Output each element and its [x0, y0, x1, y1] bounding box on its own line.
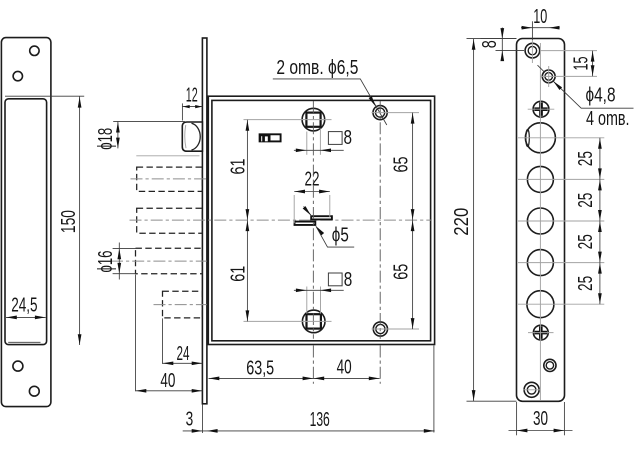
- dim 8 right view: [479, 28, 524, 62]
- dim phi18: [95, 121, 200, 155]
- face plate outline: [517, 39, 565, 402]
- label 2 holes phi6,5: [273, 57, 387, 125]
- strike plate screw hole top-right: [30, 46, 39, 55]
- svg-text:150: 150: [58, 210, 80, 233]
- spindle vertical centerline: [312, 101, 314, 339]
- crosshair hole 2: [518, 178, 604, 180]
- svg-text:24: 24: [177, 343, 190, 365]
- crosshair phillips upper: [528, 108, 555, 110]
- strike plate screw hole upper-left: [13, 71, 22, 80]
- svg-text:12: 12: [186, 84, 198, 106]
- crosshair top square: [244, 119, 332, 121]
- svg-text:65: 65: [391, 264, 413, 280]
- centerline C: [111, 260, 207, 262]
- strike plate screw hole bottom-right: [29, 386, 39, 396]
- big hole 4: [527, 250, 553, 276]
- crosshair phi6.5 bottom / ext 65: [372, 328, 420, 330]
- dim 3 / 136: [183, 346, 435, 434]
- crosshair bottom screw: [523, 389, 541, 391]
- hole phi6.5 bottom: [373, 322, 387, 336]
- svg-text:25: 25: [575, 151, 597, 166]
- strike plate outline: [1, 38, 51, 407]
- phillips screw upper: [533, 101, 549, 117]
- face plate vertical centerline: [539, 43, 541, 400]
- crosshair phi4.8: [540, 75, 597, 77]
- crosshair phi6.5 top / ext 65: [372, 112, 420, 114]
- stop pin detail: [260, 134, 281, 141]
- hidden bolt rect C: [136, 248, 203, 273]
- crosshair hole 4: [518, 262, 604, 264]
- latch bolt: [182, 122, 202, 151]
- cutout depth line: [8, 341, 40, 343]
- svg-text:24,5: 24,5: [11, 295, 37, 317]
- dim 63,5 / 40: [209, 357, 380, 381]
- dim 40 lower left: [136, 370, 203, 393]
- crosshair hole 1: [518, 137, 604, 139]
- svg-text:25: 25: [575, 276, 597, 291]
- spindle hole top circle: [302, 108, 325, 131]
- spindle hole top square: [306, 113, 320, 127]
- hidden bolt rect A: [137, 167, 203, 191]
- dim 61 chain: [227, 120, 249, 322]
- crosshair phillips lower: [528, 332, 554, 334]
- svg-text:ϕ18: ϕ18: [95, 128, 117, 150]
- svg-text:8: 8: [344, 127, 353, 149]
- dim 24: [163, 343, 203, 365]
- svg-text:8: 8: [479, 40, 501, 48]
- dim 220: [451, 39, 517, 402]
- lock body outer outline: [208, 96, 434, 344]
- leader phi5: [303, 206, 355, 247]
- centerline A: [131, 178, 207, 180]
- svg-text:136: 136: [310, 409, 330, 431]
- hole 1 side lens: [526, 130, 529, 147]
- dim 22: [294, 169, 330, 224]
- svg-text:ϕ16: ϕ16: [95, 251, 117, 273]
- phi6.5 vertical centerline: [379, 101, 381, 339]
- svg-text:40: 40: [160, 370, 175, 392]
- svg-text:4 omв.: 4 omв.: [586, 108, 630, 130]
- big hole 2: [527, 166, 553, 192]
- hidden bolt rect B: [137, 208, 203, 233]
- svg-text:2 omв. ϕ6,5: 2 omв. ϕ6,5: [276, 57, 358, 79]
- dim 24,5: [6, 295, 46, 320]
- big hole 5: [527, 291, 554, 318]
- spindle hole bottom circle: [302, 310, 325, 333]
- square symbol 8 top: [328, 127, 352, 149]
- lever step plate lower bar: [295, 222, 316, 225]
- centerline D: [154, 304, 207, 306]
- dim 150: [5, 96, 84, 345]
- dim 65 chain: [391, 113, 415, 330]
- hidden bolt rect D: [163, 291, 203, 318]
- big hole 3: [527, 208, 553, 234]
- small double hole: [544, 359, 556, 371]
- hole phi6.5 top: [373, 106, 387, 120]
- dim 12: [182, 84, 202, 120]
- dim 8 bottom: [294, 287, 344, 314]
- svg-text:40: 40: [337, 357, 352, 379]
- dim 25 chain: [575, 138, 602, 304]
- crosshair hole 5: [518, 303, 604, 305]
- crosshair top screw: [540, 50, 597, 52]
- latch shading arc: [185, 125, 186, 148]
- top screw hole: [525, 43, 540, 58]
- svg-text:8: 8: [344, 269, 353, 291]
- ext line for dim 40 left: [135, 275, 137, 392]
- svg-text:15: 15: [571, 57, 593, 71]
- svg-text:25: 25: [575, 193, 597, 208]
- svg-text:3: 3: [186, 409, 194, 431]
- ext line for dim 24 left: [162, 318, 164, 364]
- svg-text:220: 220: [451, 208, 473, 236]
- body horizontal centerline: [130, 219, 431, 221]
- strike plate cutout window: [5, 99, 47, 345]
- dim 30: [509, 402, 573, 435]
- dim phi16: [95, 243, 136, 280]
- hole phi4,8: [542, 70, 555, 83]
- bottom screw hole: [524, 382, 539, 397]
- label phi4,8 4 holes: [538, 65, 634, 130]
- latch bevel arc: [192, 123, 201, 150]
- svg-text:ϕ4,8: ϕ4,8: [586, 85, 616, 107]
- crosshair hole 3: [518, 220, 604, 222]
- lever step plate upper bar: [311, 216, 332, 219]
- svg-text:ϕ5: ϕ5: [332, 225, 349, 247]
- svg-text:22: 22: [305, 169, 320, 191]
- faceplate side view: [202, 38, 207, 404]
- svg-text:63,5: 63,5: [246, 358, 274, 380]
- dim 10: [521, 6, 560, 63]
- dim 8 top: [294, 129, 344, 155]
- svg-text:61: 61: [227, 266, 249, 282]
- svg-text:25: 25: [575, 234, 597, 249]
- crosshair bottom square: [244, 320, 332, 322]
- svg-text:61: 61: [227, 159, 249, 175]
- svg-text:10: 10: [533, 6, 547, 28]
- square symbol 8 bottom: [328, 269, 352, 291]
- lock body inner outline: [212, 100, 431, 340]
- big hole 1: [525, 123, 555, 153]
- phillips screw lower: [533, 325, 548, 340]
- svg-text:65: 65: [391, 157, 413, 173]
- dim 15: [571, 51, 595, 76]
- svg-text:30: 30: [533, 408, 548, 430]
- strike plate screw hole lower-left: [13, 361, 23, 371]
- spindle hole bottom square: [307, 314, 321, 328]
